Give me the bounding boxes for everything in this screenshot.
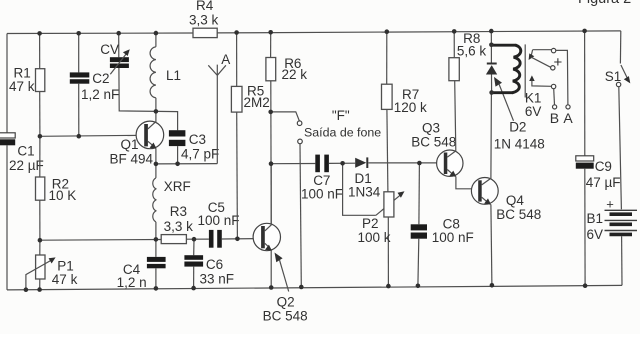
svg-text:C9: C9 xyxy=(595,159,612,174)
svg-text:22 k: 22 k xyxy=(282,67,308,82)
svg-text:BC 548: BC 548 xyxy=(263,309,308,324)
svg-text:Q3: Q3 xyxy=(422,120,440,135)
svg-text:Q2: Q2 xyxy=(277,294,295,309)
svg-text:S1: S1 xyxy=(605,69,622,84)
capacitor C4 xyxy=(155,239,157,257)
svg-text:47 k: 47 k xyxy=(52,272,78,287)
svg-text:C6: C6 xyxy=(206,257,223,272)
resistor R3 xyxy=(161,235,186,244)
annotation arrow Q2 xyxy=(275,253,283,263)
svg-text:BC 548: BC 548 xyxy=(496,207,541,222)
svg-text:1N 4148: 1N 4148 xyxy=(494,136,545,151)
capacitor C8 xyxy=(418,163,421,224)
svg-text:120 k: 120 k xyxy=(394,100,427,115)
annotation arrow D2 xyxy=(494,77,502,87)
svg-text:"F": "F" xyxy=(332,108,350,123)
svg-text:1,2 nF: 1,2 nF xyxy=(81,87,119,102)
terminal B xyxy=(553,105,557,109)
svg-text:R4: R4 xyxy=(196,0,214,13)
transistor Q2 xyxy=(253,223,280,250)
svg-text:10 K: 10 K xyxy=(49,188,77,203)
relay contact set top xyxy=(533,49,552,51)
potentiometer P2 xyxy=(343,163,376,215)
relay contact set bottom xyxy=(529,75,535,81)
svg-text:Figura 2: Figura 2 xyxy=(578,0,631,7)
capacitor C7 xyxy=(315,155,320,173)
node dots xyxy=(24,29,588,292)
svg-text:L1: L1 xyxy=(166,68,181,83)
svg-text:BF 494: BF 494 xyxy=(110,151,154,166)
wire Q2 collector rail xyxy=(271,163,315,165)
svg-text:C2: C2 xyxy=(92,71,109,86)
wire top bus left segment xyxy=(7,32,193,35)
svg-text:100 nF: 100 nF xyxy=(301,187,343,202)
transistor Q3 xyxy=(437,150,463,176)
terminal A xyxy=(566,105,570,109)
svg-text:A: A xyxy=(563,110,573,126)
svg-text:P2: P2 xyxy=(362,216,379,231)
wire R3 to C5 xyxy=(186,238,209,240)
diode D1 xyxy=(355,158,366,168)
diode D2 xyxy=(490,31,492,45)
svg-text:47 k: 47 k xyxy=(9,79,35,94)
switch S1 xyxy=(619,31,621,64)
wire bottom ground bus xyxy=(7,285,622,290)
transistor Q1 xyxy=(136,121,164,149)
svg-text:100 nF: 100 nF xyxy=(198,213,240,228)
svg-text:22 µF: 22 µF xyxy=(9,158,44,173)
capacitor C6 xyxy=(193,239,195,255)
wire bias rail y240 xyxy=(40,239,161,242)
wire Q1 base xyxy=(40,135,144,136)
svg-text:CV: CV xyxy=(100,42,119,57)
svg-text:4,7 pF: 4,7 pF xyxy=(181,146,219,161)
svg-text:Q1: Q1 xyxy=(121,137,139,152)
relay armature bar xyxy=(524,44,526,97)
inductor XRF xyxy=(155,164,157,178)
svg-text:6V: 6V xyxy=(587,227,604,242)
resistor R4 xyxy=(193,28,217,37)
svg-text:B: B xyxy=(550,110,559,126)
capacitor C3 xyxy=(169,130,186,136)
potentiometer P1 xyxy=(39,240,41,255)
svg-text:R3: R3 xyxy=(170,204,187,219)
variable capacitor CV xyxy=(118,33,120,57)
relay K1 coil xyxy=(491,44,515,47)
resistor R8 xyxy=(453,31,455,57)
svg-text:B1: B1 xyxy=(587,211,604,226)
capacitor C5 xyxy=(209,230,214,248)
svg-text:1,2 n: 1,2 n xyxy=(117,275,147,290)
svg-text:100 k: 100 k xyxy=(358,230,391,245)
phone jack F xyxy=(271,112,300,121)
resistor R7 xyxy=(386,32,388,84)
resistor R5 xyxy=(236,33,238,87)
svg-text:6V: 6V xyxy=(525,104,542,119)
svg-text:+: + xyxy=(606,196,614,211)
inductor L1 xyxy=(155,33,157,47)
svg-text:3,3 k: 3,3 k xyxy=(164,219,194,234)
svg-text:47 µF: 47 µF xyxy=(586,175,621,190)
svg-text:BC 548: BC 548 xyxy=(411,134,456,149)
wire top bus right segment xyxy=(217,31,621,33)
wire left edge rail xyxy=(6,34,8,290)
transistor Q4 xyxy=(471,178,498,205)
svg-text:Q4: Q4 xyxy=(506,193,525,208)
svg-text:D2: D2 xyxy=(509,119,526,134)
svg-text:A: A xyxy=(221,52,230,67)
svg-text:XRF: XRF xyxy=(164,179,191,194)
svg-text:33 nF: 33 nF xyxy=(200,272,235,287)
svg-text:100 nF: 100 nF xyxy=(432,230,474,245)
resistor R2 xyxy=(39,136,41,177)
svg-text:3,3 k: 3,3 k xyxy=(189,13,219,28)
svg-text:Saída de fone: Saída de fone xyxy=(304,125,381,139)
resistor R1 xyxy=(39,33,41,68)
capacitor C1 xyxy=(0,133,15,138)
svg-text:C3: C3 xyxy=(189,132,206,147)
antenna A xyxy=(208,65,226,164)
svg-text:2M2: 2M2 xyxy=(244,95,270,110)
wire Q1 emitter to antenna xyxy=(156,163,217,165)
capacitor C2 xyxy=(78,33,80,72)
resistor R6 xyxy=(270,32,272,57)
svg-text:C1: C1 xyxy=(17,144,34,159)
svg-text:5,6 k: 5,6 k xyxy=(457,44,487,59)
svg-text:+: + xyxy=(554,54,563,71)
capacitor C9 xyxy=(584,31,586,156)
wire R6 bottom to Q2 collector xyxy=(270,81,272,225)
svg-text:1N34: 1N34 xyxy=(348,185,381,200)
